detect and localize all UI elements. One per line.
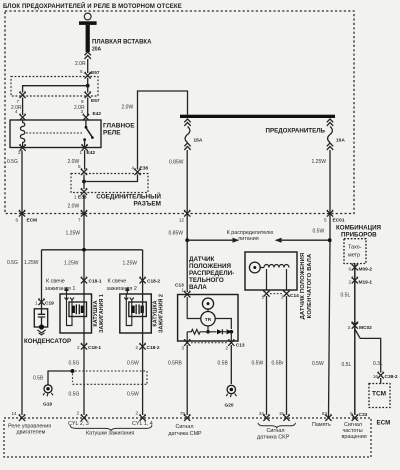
svg-text:2.0W: 2.0W [122, 105, 134, 111]
fusible link terminal ring [84, 13, 91, 20]
connector C14 pin2 [283, 290, 289, 297]
coil1 core box [69, 302, 87, 317]
svg-text:К свече: К свече [46, 279, 65, 285]
svg-text:2: 2 [225, 346, 228, 351]
wire: E57 to junction [87, 78, 89, 86]
svg-text:CYL 1, 4: CYL 1, 4 [132, 421, 153, 427]
dashed ground tie lines [73, 371, 148, 384]
svg-text:ТЕЛЬНОГО: ТЕЛЬНОГО [189, 277, 224, 284]
svg-text:3: 3 [181, 346, 184, 351]
svg-text:E42: E42 [87, 150, 96, 156]
ECM pin9 connector [352, 414, 358, 421]
engine compartment fuse/relay block dashed border [5, 11, 354, 214]
svg-text:0.5L: 0.5L [341, 293, 351, 299]
svg-text:ECM: ECM [27, 218, 38, 224]
diode 1 [217, 329, 222, 334]
svg-text:0.5G: 0.5G [69, 361, 80, 367]
wire into joint [83, 175, 85, 182]
svg-text:КОНДЕНСАТОР: КОНДЕНСАТОР [24, 338, 71, 345]
svg-text:0.5W: 0.5W [313, 229, 325, 235]
inline connector MC02 [352, 322, 358, 329]
svg-text:1.25W: 1.25W [66, 231, 81, 237]
ECM pin14 connector [19, 414, 25, 421]
contact output dot [83, 138, 86, 141]
emitter junction dot [206, 330, 210, 334]
svg-text:2: 2 [135, 345, 138, 350]
junction dot [86, 84, 90, 88]
svg-text:0.5W: 0.5W [252, 361, 264, 367]
svg-text:2.0W: 2.0W [68, 204, 80, 210]
ground symbol G19 [44, 385, 52, 393]
svg-text:7: 7 [17, 99, 20, 104]
wire tachometer signal [354, 264, 356, 416]
ground junction dot [71, 369, 75, 373]
svg-text:C14: C14 [290, 293, 299, 299]
connector C13 pin2 [228, 339, 234, 346]
connector C18-1 [81, 277, 87, 284]
wire 2.0R left [22, 98, 24, 116]
svg-text:ПОЛОЖЕНИЯ: ПОЛОЖЕНИЯ [189, 263, 231, 270]
svg-text:0.5W: 0.5W [127, 392, 139, 398]
svg-text:0.5G: 0.5G [7, 159, 18, 165]
svg-text:5: 5 [324, 217, 327, 222]
svg-text:E57: E57 [91, 70, 100, 76]
junction dot backup feed [328, 238, 332, 242]
spark output arrow 1 [66, 290, 68, 294]
crank pickup circle [249, 262, 260, 273]
svg-text:РАЗЪЕМ: РАЗЪЕМ [134, 201, 161, 208]
svg-text:СОЕДИНИТЕЛЬНЫЙ: СОЕДИНИТЕЛЬНЫЙ [96, 191, 161, 200]
cam sensor ground wire [230, 345, 232, 384]
svg-text:1: 1 [79, 150, 82, 155]
svg-text:CYL 2, 3: CYL 2, 3 [68, 421, 89, 427]
svg-text:G20: G20 [225, 403, 234, 409]
wire to power distribution right segment [282, 239, 330, 241]
svg-text:M19-1: M19-1 [359, 280, 373, 286]
wire: link to E57 [87, 59, 89, 73]
svg-text:TR: TR [205, 317, 212, 323]
CKP signal wire 2 [286, 296, 288, 415]
svg-text:ПЛАВКАЯ ВСТАВКА: ПЛАВКАЯ ВСТАВКА [92, 40, 152, 46]
svg-text:ДАТЧИК ПОЛОЖЕНИЯ: ДАТЧИК ПОЛОЖЕНИЯ [300, 253, 306, 320]
svg-text:0.3L: 0.3L [373, 361, 383, 367]
contact blade [86, 128, 92, 137]
svg-text:6: 6 [15, 218, 18, 223]
svg-text:2: 2 [135, 411, 138, 416]
connector E38 in [81, 169, 87, 176]
svg-text:EC01: EC01 [333, 217, 345, 223]
svg-text:0.5G: 0.5G [7, 260, 18, 266]
connector on box edge [184, 210, 190, 217]
coil2 primary wire through [142, 294, 144, 333]
svg-text:3: 3 [80, 109, 83, 114]
svg-text:Сигнал: Сигнал [176, 424, 194, 430]
wire 2.0W joint to box edge [83, 194, 85, 250]
fuse supply bus bar [180, 115, 335, 118]
svg-text:ДАТЧИК: ДАТЧИК [189, 256, 215, 263]
svg-text:C19: C19 [45, 300, 54, 306]
svg-text:G19: G19 [43, 401, 52, 407]
svg-text:MC02: MC02 [359, 325, 372, 331]
svg-text:E38: E38 [140, 165, 149, 171]
sensor bottom rail with resistor [187, 329, 216, 334]
coil1 core bars [72, 306, 75, 313]
connector E42 pin3 [83, 114, 89, 121]
svg-text:C18-1: C18-1 [88, 345, 101, 351]
connector C13 in [184, 291, 190, 298]
CKP signal wire 1 [266, 296, 268, 415]
svg-text:ECM: ECM [377, 419, 391, 426]
arrowhead right [233, 238, 240, 243]
svg-text:E42: E42 [93, 111, 102, 117]
connector E57 pin9 [85, 92, 91, 99]
fuse 10A bottom chevrons [327, 143, 333, 150]
connector C38-2 [378, 372, 384, 379]
coil2 secondary winding [124, 294, 134, 326]
wire 2.0W relay out [84, 150, 86, 169]
camshaft sensor box [178, 295, 238, 342]
svg-text:метр: метр [348, 253, 360, 259]
E57 internal dashed box [11, 77, 98, 97]
svg-text:Катушки зажигания: Катушки зажигания [86, 431, 134, 437]
fuse 15A bottom chevrons [184, 143, 190, 150]
svg-text:4: 4 [15, 109, 18, 114]
joint internal wire [84, 175, 138, 182]
svg-text:РЕЛЕ: РЕЛЕ [103, 129, 121, 136]
svg-text:2: 2 [348, 280, 351, 285]
svg-text:0.5G: 0.5G [69, 392, 80, 398]
fuse 15A top chevrons [184, 119, 190, 126]
wire 1.25W from 10A fuse [329, 150, 331, 417]
crank coil winding [260, 265, 289, 268]
svg-text:0.5L: 0.5L [342, 362, 352, 368]
coil1 output wire [83, 333, 85, 415]
junction dot to power distribution [185, 238, 189, 242]
ignition coil 1 box [60, 294, 92, 333]
connector C14 pin1 [263, 290, 269, 297]
svg-text:датчика CKP: датчика CKP [257, 435, 290, 441]
hall element circle [202, 298, 213, 309]
internal bus wire [23, 86, 88, 93]
connector dashed bar [270, 293, 283, 295]
svg-text:1: 1 [261, 294, 264, 299]
sensor pin3 stem [187, 332, 231, 341]
svg-text:КОЛЕНЧАТОГО ВАЛА: КОЛЕНЧАТОГО ВАЛА [307, 253, 313, 318]
joint junction dot [82, 180, 86, 184]
svg-text:Память: Память [312, 422, 331, 428]
svg-text:К распределителю: К распределителю [227, 230, 274, 236]
wire to power distribution left segment [187, 239, 232, 241]
coil1 secondary winding [65, 294, 75, 326]
connector E42 pin2 [20, 144, 26, 151]
svg-text:M09-2: M09-2 [359, 267, 373, 273]
connector M19-1 [352, 277, 358, 284]
svg-text:Реле управления: Реле управления [8, 424, 51, 430]
svg-text:1.25W: 1.25W [123, 260, 138, 266]
svg-text:E38: E38 [78, 194, 87, 200]
ECM pin34 connector [263, 414, 269, 421]
fuse 10A element [328, 127, 333, 143]
svg-text:зажигания 2: зажигания 2 [107, 286, 137, 292]
wire 0.85W from 15A fuse [186, 150, 188, 292]
branch wire to TCM [355, 329, 381, 373]
connector M09-2 [352, 264, 358, 271]
connector on box edge [81, 210, 87, 217]
connector E57 pin7 [20, 92, 26, 99]
svg-text:0.5Br: 0.5Br [272, 361, 284, 367]
svg-text:C18-2: C18-2 [147, 278, 160, 284]
crankshaft sensor box [245, 252, 297, 290]
connector E01 on box edge [19, 210, 25, 217]
svg-text:2: 2 [76, 411, 79, 416]
coil1 feed wire [83, 250, 85, 294]
relay contact fixed pin [85, 120, 87, 126]
svg-text:1.25W: 1.25W [312, 159, 327, 165]
svg-text:ЗАЖИГАНИЯ 1: ЗАЖИГАНИЯ 1 [99, 294, 105, 333]
diode 2 [222, 331, 226, 333]
svg-text:датчика CMP: датчика CMP [168, 431, 202, 437]
svg-text:двигателем: двигателем [17, 430, 46, 436]
coil2 core bars [131, 306, 134, 313]
connector E42 pin1 [82, 144, 88, 151]
condenser ground dot [39, 324, 44, 329]
ECM pin79 connector [184, 414, 190, 421]
TCM dashed box [369, 384, 390, 408]
capacitor drop wire [41, 250, 43, 309]
svg-text:4: 4 [131, 165, 134, 170]
connector C18-1 out [81, 343, 87, 350]
transistor TR circle [201, 312, 215, 326]
svg-text:15A: 15A [194, 138, 203, 144]
svg-text:2: 2 [18, 150, 21, 155]
svg-text:Сигнал: Сигнал [267, 428, 285, 434]
coil2 core box [129, 302, 147, 317]
svg-text:ПРЕДОХРАНИТЕЛЬ: ПРЕДОХРАНИТЕЛЬ [266, 128, 326, 135]
ECM pin15 connector [283, 414, 289, 421]
svg-text:20A: 20A [92, 47, 102, 53]
connector C18-2 out [140, 343, 146, 350]
relay coil winding [20, 120, 24, 148]
contact blade tip [91, 136, 94, 139]
condenser box [34, 309, 47, 327]
tachometer dashed box [344, 239, 366, 264]
svg-text:7: 7 [78, 218, 81, 223]
connector C13 pin3 [184, 339, 190, 346]
svg-text:ПРИБОРОВ: ПРИБОРОВ [341, 232, 377, 239]
coils brace [70, 425, 152, 430]
coil2 output wire [142, 333, 144, 415]
condenser ground chevrons [37, 330, 45, 335]
svg-text:ЗАЖИГАНИЯ 2: ЗАЖИГАНИЯ 2 [159, 294, 165, 333]
svg-text:12: 12 [179, 218, 185, 223]
svg-text:C38-2: C38-2 [385, 374, 398, 380]
connector C19 [38, 299, 44, 306]
fuse 15A element [185, 127, 190, 143]
ignition feed rail [42, 249, 143, 251]
svg-text:TCM: TCM [372, 390, 386, 397]
svg-text:0.5W: 0.5W [127, 361, 139, 367]
ground symbol G20 [227, 385, 235, 393]
svg-text:2.0R: 2.0R [75, 61, 86, 67]
ignition coil 2 box [120, 294, 152, 333]
svg-text:ВАЛА: ВАЛА [189, 284, 207, 291]
transistor collector wire [215, 319, 231, 330]
svg-text:1: 1 [74, 194, 77, 199]
spark output arrow 2 [126, 290, 128, 294]
wire out of joint down [83, 182, 85, 190]
connector dashed bar [191, 342, 228, 344]
connector E38 out to fuse bus [134, 169, 140, 176]
fusible link 20A thick element [86, 25, 90, 52]
svg-text:питания: питания [238, 236, 258, 242]
svg-text:0.5RB: 0.5RB [168, 361, 183, 367]
connector E42 pin4 [20, 114, 26, 121]
svg-text:E57: E57 [91, 98, 100, 104]
fusible link bus bar [79, 21, 97, 25]
svg-text:0.85W: 0.85W [169, 231, 184, 237]
svg-text:C18-1: C18-1 [89, 278, 102, 284]
svg-text:2: 2 [281, 294, 284, 299]
relay actuation dashed link [26, 132, 82, 134]
condenser plates [38, 309, 45, 325]
svg-text:0.85W: 0.85W [169, 160, 184, 166]
svg-text:зажигания 1: зажигания 1 [45, 286, 75, 292]
sensor supply wire inside [187, 297, 201, 319]
wire 0.5G relay coil to ECM [21, 150, 23, 415]
connector E38 out down [81, 188, 87, 195]
svg-text:вращения: вращения [342, 434, 367, 440]
connector EC01 on box edge [327, 210, 333, 217]
svg-text:БЛОК ПРЕДОХРАНИТЕЛЕЙ И РЕЛЕ В: БЛОК ПРЕДОХРАНИТЕЛЕЙ И РЕЛЕ В МОТОРНОМ О… [3, 2, 182, 10]
fuse 10A top chevrons [327, 119, 333, 126]
svg-text:C18-2: C18-2 [147, 345, 160, 351]
svg-text:РАСПРЕДЕЛИ-: РАСПРЕДЕЛИ- [189, 270, 234, 277]
svg-text:C13: C13 [236, 343, 245, 349]
transistor emitter wire [207, 326, 209, 332]
hall to transistor stem [207, 309, 209, 311]
svg-text:5: 5 [80, 69, 83, 74]
svg-text:2: 2 [77, 345, 80, 350]
wire 2.0R right [87, 98, 89, 116]
contact pivot dot [85, 126, 88, 129]
wire into TCM [380, 378, 382, 384]
rail junction dot [82, 248, 86, 252]
coil2 feed wire [142, 250, 144, 294]
svg-text:5: 5 [78, 164, 81, 169]
connector chevrons under fusible link [85, 52, 91, 59]
coil1 primary wire through [83, 294, 85, 333]
svg-text:C33: C33 [359, 412, 368, 418]
connector C18-2 [140, 277, 146, 284]
svg-text:3: 3 [347, 325, 350, 330]
svg-text:0.5B: 0.5B [33, 376, 44, 382]
connector E57 pin5 [85, 72, 91, 79]
ECM dashed box (bottom) [4, 418, 371, 457]
ECM coil2 connector [140, 414, 146, 421]
ECM pin63 connector [325, 414, 331, 421]
svg-text:0.5B: 0.5B [218, 361, 229, 367]
CMP signal wire [186, 345, 188, 415]
svg-text:КОМБИНАЦИЯ: КОМБИНАЦИЯ [336, 225, 382, 232]
main relay box [10, 120, 101, 148]
ECM coil1 connector [81, 414, 87, 421]
ground wire to G19 [48, 371, 73, 385]
svg-text:0.5W: 0.5W [312, 361, 324, 367]
svg-text:Тахо-: Тахо- [348, 245, 362, 251]
svg-text:1: 1 [35, 300, 38, 305]
svg-text:6: 6 [348, 267, 351, 272]
joint connector dashed box E38 [71, 174, 148, 193]
arrowhead left [275, 238, 282, 243]
svg-text:9: 9 [81, 99, 84, 104]
svg-text:К свече: К свече [108, 279, 127, 285]
svg-text:10A: 10A [336, 138, 345, 144]
svg-text:14: 14 [12, 411, 18, 416]
crank sensor stems [267, 269, 287, 290]
feed wire to fuse bus [138, 91, 188, 170]
svg-text:16: 16 [373, 374, 379, 379]
contact output wire [84, 140, 86, 148]
svg-text:1.25W: 1.25W [24, 260, 39, 266]
CKP brace [258, 423, 296, 428]
output junction dot [229, 330, 233, 334]
svg-text:1.25W: 1.25W [64, 260, 79, 266]
